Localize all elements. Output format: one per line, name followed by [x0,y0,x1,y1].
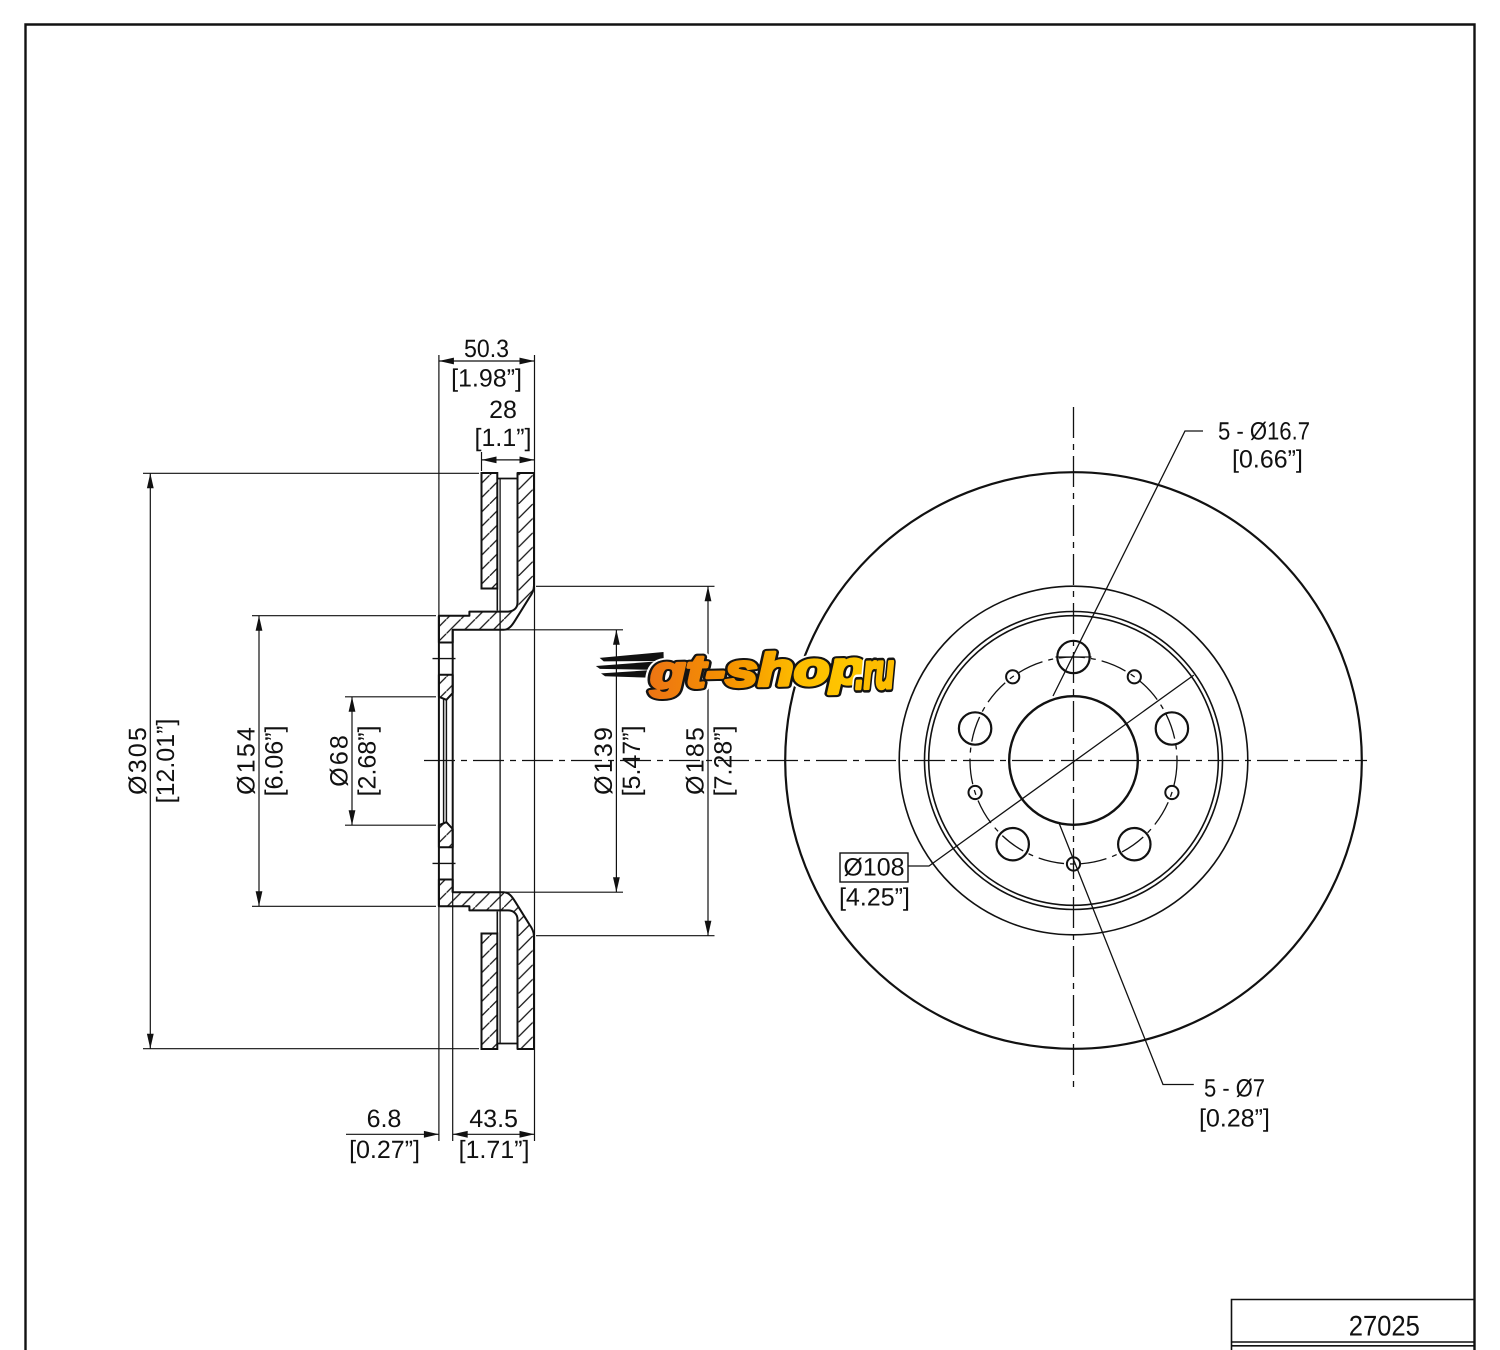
dim D68 [330,697,436,825]
part number 27025 [1350,1316,1419,1336]
small hole D7 bottom [1067,857,1080,870]
dim D139 [506,630,645,892]
dim D154 [237,616,436,907]
small hole D7 lower-left [969,786,982,799]
small hole D7 upper-right [1128,670,1141,683]
.ru text [856,661,894,689]
dim 50.3 [439,340,535,392]
hat / inner plate / neck / flange (bottom half) [439,880,534,1050]
extension line for 28 dim (x=481.5) [481,452,483,471]
vane silhouette edge [499,479,501,1044]
leader D108 [908,675,1194,866]
disc outer circle [785,472,1362,1049]
dim 6.8 [346,1110,439,1164]
small hole D7 upper-left [1006,670,1019,683]
flange edge circle pair [925,612,1223,910]
bolt hole D16.7 lower-left [997,828,1029,860]
bolt hole D16.7 upper-left [959,712,991,744]
front view labels [840,422,1309,1132]
front view vertical centerline [1073,407,1075,1091]
extension line (mounting face, x=439) [438,355,440,1141]
bolt hole D16.7 lower-right [1118,828,1150,860]
vane top edge [497,478,517,480]
bolt circle (dash-dot) D108 [970,657,1177,864]
small hole D7 lower-right [1165,786,1178,799]
bolt hole centerline (top) [433,658,456,660]
hub face strip below bore (bottom) [439,822,453,847]
bolt hole centerline (bottom) [433,862,456,864]
outer plate (top) [482,473,498,589]
extension line (disc outer face, x=534.5) [534,355,536,1141]
bolt hole D16.7 top [1057,641,1089,673]
main horizontal centerline [424,760,1367,762]
extension line (hat face back, x=452.7) [452,630,454,1141]
hub face edges (bold through bolt hole and bore) [438,616,440,907]
center bore D68 [1009,696,1138,825]
dim 28 [476,401,534,464]
bore wall lines [443,699,445,824]
gt-shop text [649,650,864,698]
dim D305 [128,473,479,1048]
bolt hole D16.7 upper-right [1156,712,1188,744]
hat outer circle D185 [899,586,1248,935]
title block [1232,1300,1475,1350]
dim 43.5 [453,1110,535,1164]
outer plate (bottom) [482,934,498,1050]
dim D185 [536,586,737,935]
hub face strip above bore (top) [439,675,453,700]
leader 5-D7 [1059,823,1194,1085]
speed streaks [600,652,664,662]
vane root edge (top) [496,589,498,611]
vane bottom edge [497,1043,517,1045]
bolt circle dash through top hole [1056,656,1092,658]
hat / inner plate / neck / flange (top half) [439,473,534,643]
leader 5-D16.7 [1053,431,1203,696]
vane root edge (bottom) [496,912,498,934]
